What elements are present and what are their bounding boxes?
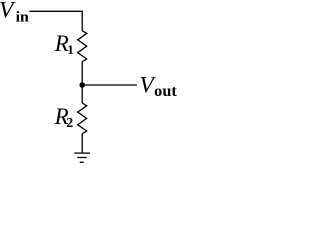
svg-text:1: 1 <box>67 42 74 57</box>
svg-text:in: in <box>16 10 30 26</box>
svg-text:out: out <box>154 83 177 100</box>
svg-text:2: 2 <box>66 116 73 131</box>
svg-text:V: V <box>0 0 16 23</box>
